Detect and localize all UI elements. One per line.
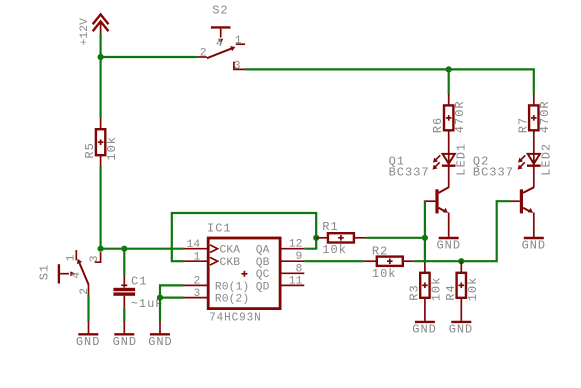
svg-text:GND: GND	[113, 335, 138, 349]
LED LED1	[433, 143, 469, 188]
svg-text:QB: QB	[256, 257, 270, 269]
svg-text:4: 4	[71, 272, 83, 279]
svg-text:14: 14	[187, 239, 201, 251]
resistor R1	[316, 220, 366, 257]
wire QA feedback to CKB	[172, 213, 316, 261]
IC1 pin 11 QD	[280, 275, 304, 287]
ground Q2 emitter	[522, 238, 547, 253]
IC1 pin 9 QB	[280, 251, 304, 263]
svg-text:1: 1	[235, 35, 242, 47]
svg-text:R3: R3	[407, 284, 421, 300]
wire R5 to node A	[99, 166, 101, 248]
svg-text:1: 1	[194, 252, 201, 264]
svg-text:10k: 10k	[105, 136, 119, 161]
svg-text:3: 3	[194, 288, 201, 300]
wire R1 to Q1 base node	[366, 237, 425, 239]
svg-text:R5: R5	[83, 142, 97, 158]
svg-text:R1: R1	[322, 220, 338, 234]
IC1 pin 2 R0(1)	[184, 276, 208, 288]
IC1 pin 8 QC	[280, 263, 304, 275]
resistor R2	[364, 244, 414, 281]
resistor R3	[407, 261, 443, 321]
wire base node up to Q1 base	[424, 201, 426, 238]
transistor Q1	[389, 155, 449, 237]
junction rail at R6	[446, 66, 452, 72]
ground reset riser	[148, 321, 173, 349]
wire +12V down to node	[99, 34, 101, 58]
svg-text:R4: R4	[444, 284, 458, 300]
LED LED2	[518, 143, 554, 188]
IC1 pin 1 CKB	[184, 252, 208, 264]
ground S1	[76, 321, 101, 349]
IC1 pin 12 QA	[280, 239, 304, 251]
svg-text:2: 2	[200, 48, 207, 60]
svg-text:QC: QC	[256, 269, 270, 281]
svg-text:GND: GND	[522, 239, 547, 253]
op-amp IC1 box	[207, 221, 280, 324]
svg-text:GND: GND	[449, 322, 474, 336]
svg-text:IC1: IC1	[207, 221, 232, 235]
svg-text:GND: GND	[148, 335, 173, 349]
wire node A to CKA pin 14	[101, 248, 184, 250]
switch S1	[38, 250, 102, 295]
resistor R4	[444, 261, 480, 321]
svg-text:470R: 470R	[453, 100, 467, 133]
wire C1 to ground	[123, 308, 125, 322]
svg-text:LED1: LED1	[455, 143, 469, 176]
wire S2 pin3 to LED rail	[245, 69, 534, 94]
svg-text:9: 9	[296, 251, 303, 263]
svg-text:QD: QD	[256, 281, 270, 293]
wire reset pins to ground riser	[160, 285, 184, 321]
junction R4 node	[458, 258, 464, 264]
svg-text:10k: 10k	[372, 267, 397, 281]
junction C1 tap	[121, 246, 127, 252]
svg-text:C1: C1	[131, 275, 147, 289]
wire +12V node to S2 pin 2	[101, 56, 197, 58]
ground R4	[449, 322, 474, 337]
svg-text:10k: 10k	[466, 277, 480, 302]
resistor R7	[516, 94, 552, 154]
svg-text:GND: GND	[412, 322, 437, 336]
IC1 pin 3 R0(2)	[184, 288, 208, 300]
svg-text:R0(1): R0(1)	[215, 281, 249, 293]
junction R1 input node	[313, 235, 319, 241]
svg-text:10k: 10k	[322, 243, 347, 257]
svg-text:QA: QA	[256, 245, 270, 257]
svg-text:12: 12	[289, 239, 303, 251]
svg-text:74HC93N: 74HC93N	[209, 311, 262, 325]
svg-text:3: 3	[89, 255, 101, 262]
svg-text:10k: 10k	[429, 277, 443, 302]
svg-text:R7: R7	[516, 117, 530, 133]
svg-text:3: 3	[234, 60, 241, 72]
svg-text:R6: R6	[431, 117, 445, 133]
svg-text:2: 2	[194, 276, 201, 288]
ground Q1 emitter	[437, 238, 462, 253]
svg-text:GND: GND	[437, 239, 462, 253]
svg-text:BC337: BC337	[473, 166, 514, 180]
resistor R6	[431, 94, 467, 154]
junction node A	[98, 246, 104, 252]
capacitor C1	[113, 275, 163, 311]
svg-text:8: 8	[296, 263, 303, 275]
svg-text:LED2: LED2	[540, 143, 554, 176]
wire QB to R2	[304, 260, 364, 262]
svg-text:11: 11	[289, 275, 303, 287]
IC1 pin 14 CKA	[184, 239, 208, 251]
supply +12V	[79, 14, 108, 45]
svg-text:R2: R2	[372, 244, 388, 258]
resistor R5	[83, 117, 119, 166]
wire +12V node down to R5	[99, 57, 101, 117]
svg-text:GND: GND	[76, 335, 101, 349]
svg-text:2: 2	[79, 288, 91, 295]
svg-text:R0(2): R0(2)	[215, 294, 249, 306]
transistor Q2	[473, 155, 534, 237]
wire rail down to R6	[448, 69, 450, 94]
svg-text:BC337: BC337	[389, 166, 430, 180]
switch S2	[197, 3, 245, 72]
wire R2 to Q2 base	[414, 201, 511, 261]
svg-text:CKB: CKB	[220, 257, 241, 269]
svg-text:470R: 470R	[538, 100, 552, 133]
svg-text:S2: S2	[212, 3, 228, 17]
ground R3	[412, 322, 437, 337]
junction Q1 base node	[422, 235, 428, 241]
svg-text:S1: S1	[38, 264, 52, 280]
ground C1	[113, 321, 138, 349]
svg-text:4: 4	[216, 38, 223, 50]
wire C1 tap down	[123, 249, 125, 276]
junction reset riser	[157, 295, 163, 301]
svg-text:+12V: +12V	[79, 18, 91, 46]
svg-text:1: 1	[65, 254, 77, 261]
svg-text:CKA: CKA	[220, 245, 241, 257]
junction +12V node	[98, 54, 104, 60]
wire S1 pin2 to ground	[87, 295, 89, 322]
wire base node down to R3	[424, 238, 426, 261]
